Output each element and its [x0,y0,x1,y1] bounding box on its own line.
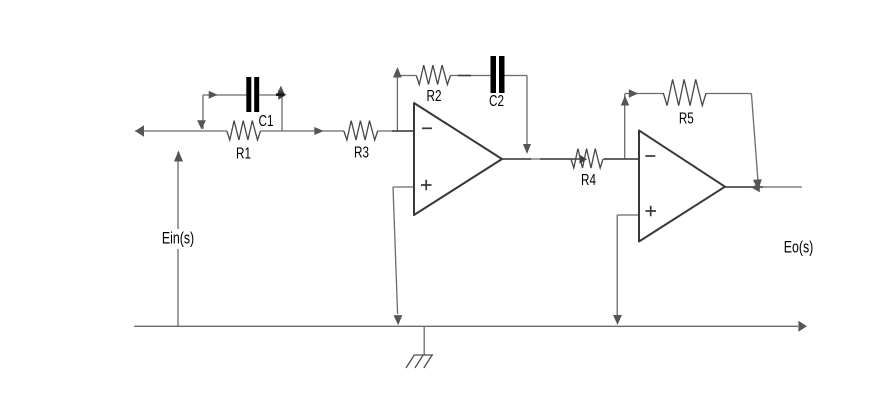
svg-text:R1: R1 [236,144,251,162]
svg-text:R5: R5 [679,109,694,127]
svg-text:R4: R4 [581,170,596,188]
svg-text:Ein(s): Ein(s) [162,230,194,248]
svg-text:C2: C2 [489,91,504,109]
svg-text:Eo(s): Eo(s) [784,239,814,257]
svg-text:R3: R3 [354,143,369,161]
svg-text:R2: R2 [427,86,442,104]
svg-text:C1: C1 [259,111,274,129]
